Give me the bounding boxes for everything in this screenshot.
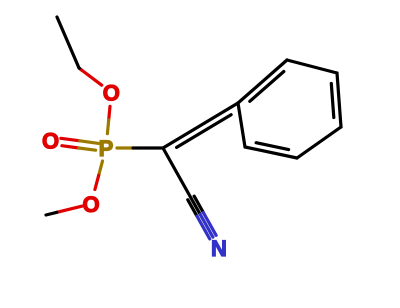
- bond P-O3: [99, 161, 103, 175]
- svg-text:O: O: [103, 81, 120, 106]
- bond P-C1: [117, 146, 133, 149]
- benzene ring edge V3-V4: [337, 73, 341, 127]
- P=O double bond lower line: [62, 146, 79, 148]
- svg-text:O: O: [42, 129, 59, 154]
- benzene ring inner double line V3-V4: [331, 84, 334, 118]
- benzene ring edge V2-V3: [287, 60, 337, 73]
- bond O1-P: [109, 106, 110, 120]
- double bond C1=C2 inner line: [177, 115, 232, 148]
- svg-text:O: O: [82, 192, 99, 217]
- benzene ring edge V4-V5: [297, 127, 341, 158]
- C#N triple bond center line: [191, 198, 200, 214]
- benzene ring edge V5-V6: [245, 147, 297, 158]
- C#N triple bond lower-right line: [188, 200, 197, 216]
- benzene ring edge V6-ipso: [238, 103, 245, 147]
- bond O3-CH3: [57, 206, 82, 212]
- C#N triple bond upper-left line: [194, 196, 203, 212]
- bond CH3-CH2 of upper O-ethyl chain: [57, 17, 79, 68]
- svg-text:P: P: [99, 136, 114, 161]
- double bond C1=C2 outer line: [163, 103, 238, 148]
- P=O double bond upper line: [61, 138, 80, 141]
- benzene ring inner double line ipso-V2: [250, 72, 284, 102]
- svg-text:N: N: [211, 236, 227, 261]
- benzene ring edge ipso-V2: [238, 60, 287, 103]
- benzene ring inner double line V5-V6: [256, 143, 289, 150]
- bond CH2-O1: [79, 68, 82, 70]
- bond C1-C(nitrile): [163, 148, 191, 198]
